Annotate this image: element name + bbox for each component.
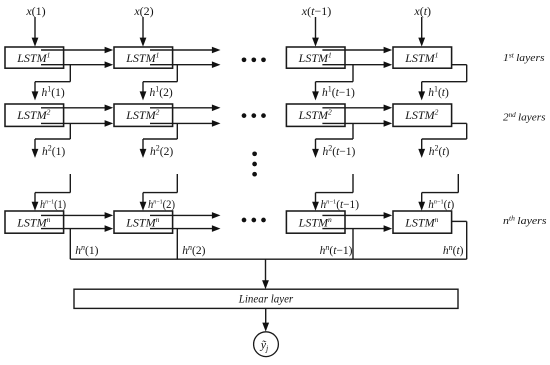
ellipsis dots rown <box>242 218 266 223</box>
svg-text:Linear layer: Linear layer <box>238 291 294 305</box>
wire LSTM1 t1 upper output <box>41 47 113 54</box>
svg-text:LSTM2: LSTM2 <box>125 108 159 122</box>
bus wire <box>70 258 466 260</box>
wire LSTM1 tm1 lower output <box>322 61 392 68</box>
box LSTMn tm1 <box>286 211 345 233</box>
svg-text:hn(1): hn(1) <box>75 243 98 257</box>
arrow linear layer to output <box>262 308 269 331</box>
wire LSTM2 t1 upper output <box>41 105 113 112</box>
wire h1(t−1) branch <box>312 65 353 101</box>
input arrow x(t−1) <box>312 17 319 47</box>
wire hn-1(t−1) stub <box>312 174 353 211</box>
svg-text:h2(t): h2(t) <box>429 144 450 158</box>
box LSTM1 tm1 <box>286 47 345 68</box>
svg-text:x(t−1): x(t−1) <box>301 4 331 18</box>
svg-text:h1(t−1): h1(t−1) <box>322 85 355 99</box>
svg-text:LSTM2: LSTM2 <box>16 108 50 122</box>
wire LSTM2 t1 lower output <box>41 120 113 127</box>
svg-text:x(2): x(2) <box>133 4 153 18</box>
wire h1(2) branch <box>140 65 178 101</box>
wire hn-1(1) stub <box>32 174 71 211</box>
box LSTMn tt <box>393 211 452 233</box>
box LSTM1 tt <box>393 47 452 68</box>
box LSTM2 t1 <box>5 104 64 126</box>
wire LSTMn tm1 upper output <box>322 212 392 219</box>
ellipsis dots row1 <box>242 57 266 62</box>
wire LSTM1 t2 upper output <box>150 47 221 54</box>
input arrow x(2) <box>140 17 147 47</box>
svg-text:hn(2): hn(2) <box>182 243 205 257</box>
wire LSTM2 tm1 upper output <box>322 105 392 112</box>
svg-text:x(1): x(1) <box>25 4 45 18</box>
svg-text:h2(1): h2(1) <box>42 144 65 158</box>
wire hn(2) drop <box>176 229 178 260</box>
arrow bus to linear layer <box>262 259 269 289</box>
wire LSTMn tm1 lower output <box>322 225 392 232</box>
svg-text:LSTMn: LSTMn <box>404 215 438 229</box>
output circle <box>254 332 279 357</box>
svg-text:LSTM1: LSTM1 <box>125 50 159 64</box>
svg-text:h1(2): h1(2) <box>150 85 173 99</box>
wire LSTM2 tm1 lower output <box>322 120 392 127</box>
wire h2(t−1) branch <box>312 123 353 157</box>
svg-text:h1(1): h1(1) <box>42 85 65 99</box>
svg-text:hn(t−1): hn(t−1) <box>320 243 353 257</box>
input arrow x(1) <box>32 17 39 47</box>
wire LSTM1 t1 lower output <box>41 61 113 68</box>
box LSTM1 t1 <box>5 47 64 68</box>
wire LSTMn t1 lower output <box>41 225 113 232</box>
svg-text:LSTMn: LSTMn <box>298 215 332 229</box>
wire LSTMn t1 upper output <box>41 212 113 219</box>
wire LSTM1 t2 lower output <box>150 61 221 68</box>
svg-text:LSTM1: LSTM1 <box>298 50 332 64</box>
svg-text:h1(t): h1(t) <box>428 85 449 99</box>
box LSTM2 tm1 <box>286 104 345 126</box>
box LSTMn t1 <box>5 211 64 233</box>
wire hn(t) drop <box>452 221 467 259</box>
wire h1(t) branch <box>418 65 466 101</box>
svg-text:x(t): x(t) <box>413 4 431 18</box>
wire h2(2) branch <box>140 123 178 157</box>
svg-text:h2(t−1): h2(t−1) <box>323 144 356 158</box>
ellipsis dots row2 <box>242 113 266 118</box>
svg-text:h2(2): h2(2) <box>150 144 173 158</box>
linear layer box <box>74 289 458 308</box>
svg-text:LSTMn: LSTMn <box>16 215 50 229</box>
wire LSTMn t2 lower output <box>150 225 221 232</box>
wire LSTM2 t2 lower output <box>150 120 221 127</box>
wire LSTM1 tm1 upper output <box>322 47 392 54</box>
wire hn-1(t) stub <box>418 174 458 211</box>
wire LSTMn t2 upper output <box>150 212 221 219</box>
wire hn(1) drop <box>69 229 71 260</box>
svg-text:LSTM1: LSTM1 <box>404 50 438 64</box>
wire hn(t−1) drop <box>352 229 354 260</box>
box LSTM1 t2 <box>114 47 173 68</box>
svg-text:hn(t): hn(t) <box>443 243 464 257</box>
box LSTM2 tt <box>393 104 452 126</box>
wire hn-1(2) stub <box>140 174 178 211</box>
vertical ellipsis dots <box>252 151 257 176</box>
box LSTM2 t2 <box>114 104 173 126</box>
svg-text:LSTM2: LSTM2 <box>298 108 332 122</box>
wire h1(1) branch <box>32 65 71 101</box>
svg-text:LSTMn: LSTMn <box>125 215 159 229</box>
input arrow x(t) <box>418 17 425 47</box>
box LSTMn t2 <box>114 211 173 233</box>
wire h2(1) branch <box>32 123 71 157</box>
wire h2(t) branch <box>418 123 466 157</box>
svg-text:LSTM2: LSTM2 <box>404 108 438 122</box>
wire LSTM2 t2 upper output <box>150 105 221 112</box>
svg-text:LSTM1: LSTM1 <box>16 50 50 64</box>
